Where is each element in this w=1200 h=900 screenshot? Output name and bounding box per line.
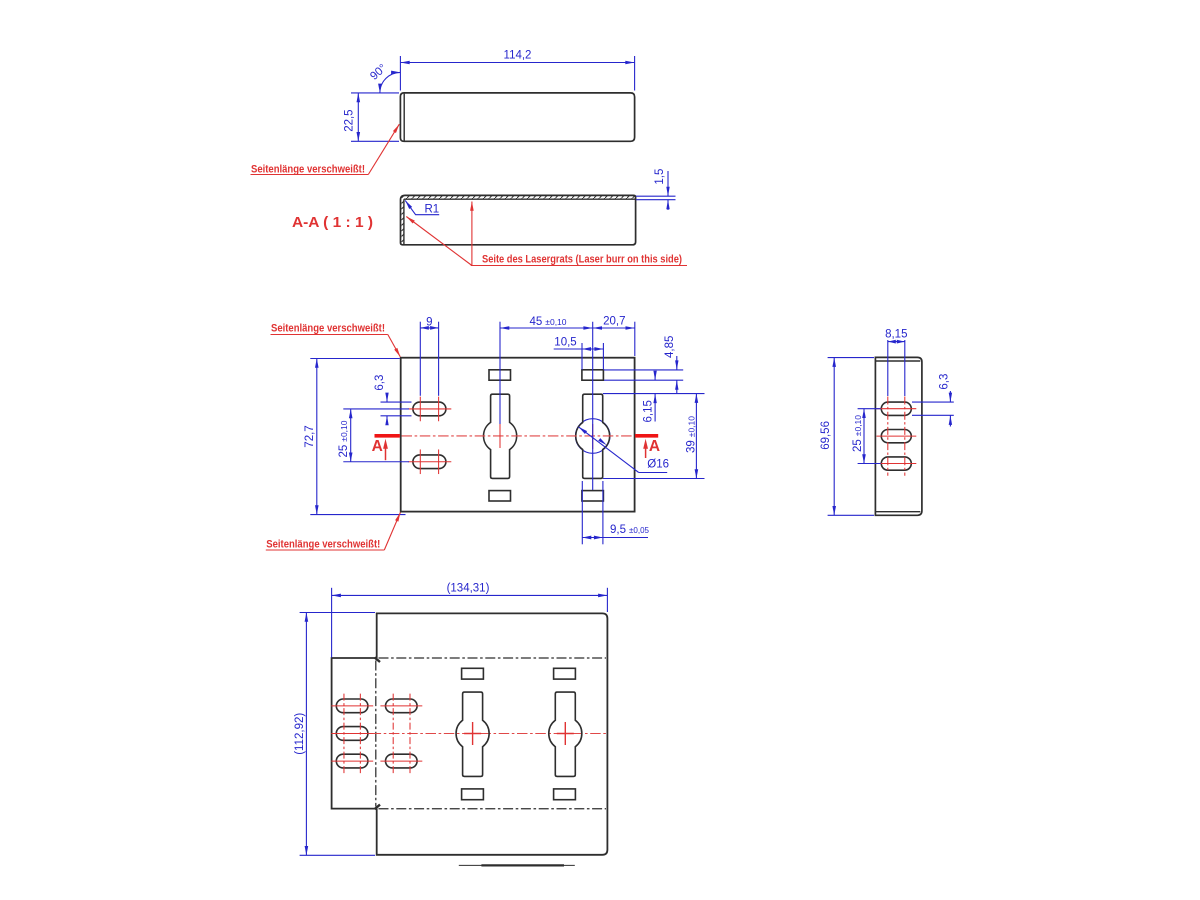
svg-text:6,3: 6,3 — [938, 374, 950, 390]
svg-text:A: A — [372, 438, 383, 455]
svg-text:39±0,10: 39±0,10 — [685, 416, 697, 453]
svg-text:Seitenlänge verschweißt!: Seitenlänge verschweißt! — [266, 539, 380, 551]
svg-text:69,56: 69,56 — [820, 421, 832, 450]
svg-text:1,5: 1,5 — [654, 169, 666, 185]
svg-text:72,7: 72,7 — [304, 425, 316, 447]
svg-text:Seitenlänge verschweißt!: Seitenlänge verschweißt! — [251, 163, 365, 175]
svg-text:9: 9 — [426, 316, 432, 328]
svg-text:22,5: 22,5 — [343, 109, 355, 131]
svg-text:(134,31): (134,31) — [447, 582, 490, 594]
svg-text:Ø16: Ø16 — [647, 459, 669, 471]
svg-text:(112,92): (112,92) — [294, 713, 306, 755]
svg-text:A-A ( 1 : 1 ): A-A ( 1 : 1 ) — [292, 214, 373, 231]
svg-text:25±0,10: 25±0,10 — [338, 420, 350, 457]
svg-text:8,15: 8,15 — [885, 328, 907, 340]
svg-text:Seitenlänge verschweißt!: Seitenlänge verschweißt! — [271, 323, 385, 335]
svg-text:20,7: 20,7 — [603, 315, 625, 327]
svg-text:45±0,10: 45±0,10 — [530, 316, 567, 328]
svg-text:A: A — [649, 438, 660, 455]
svg-text:6,15: 6,15 — [643, 400, 655, 422]
svg-text:9,5±0,05: 9,5±0,05 — [610, 524, 650, 536]
svg-text:25±0,10: 25±0,10 — [852, 415, 864, 452]
svg-text:10,5: 10,5 — [554, 337, 576, 349]
svg-text:4,85: 4,85 — [664, 336, 676, 358]
svg-text:90°: 90° — [368, 62, 389, 83]
svg-text:114,2: 114,2 — [504, 50, 532, 62]
svg-text:Seite des Lasergrats (Laser bu: Seite des Lasergrats (Laser burr on this… — [482, 253, 682, 265]
svg-text:R1: R1 — [425, 203, 440, 215]
svg-text:6,3: 6,3 — [374, 375, 386, 391]
